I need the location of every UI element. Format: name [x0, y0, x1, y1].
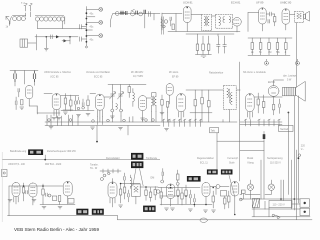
label box: [68, 199, 74, 204]
band switch box S1: [20, 39, 28, 47]
capacitor C9: [144, 10, 146, 14]
separator rule: [2, 159, 160, 161]
wire: [248, 13, 295, 32]
trimmer C6: [131, 9, 135, 16]
wire: [186, 90, 223, 113]
trimmer bank C24: [162, 119, 201, 126]
node A: [46, 36, 48, 38]
switch S4: [272, 214, 280, 219]
capacitor C4: [120, 11, 125, 15]
resistor R7: [259, 38, 262, 55]
resistor R13: [70, 95, 72, 111]
tube V6: [52, 94, 61, 118]
chassis line: [8, 216, 241, 220]
resistor R14: [128, 85, 131, 98]
tube V2: [233, 18, 242, 33]
antenna A1: [6, 17, 10, 29]
capacitor C12: [217, 36, 221, 53]
trimmer C30: [156, 190, 160, 194]
ground: [77, 114, 91, 117]
trimmer C46: [77, 107, 84, 110]
resistor R30: [154, 187, 156, 200]
tube V13: [12, 183, 20, 205]
svg-text:Netzteil: Netzteil: [280, 128, 288, 131]
badge B7: [92, 209, 104, 215]
capacitor C23: [279, 99, 281, 113]
resistor R9: [276, 38, 279, 55]
diode D2: [63, 39, 66, 42]
ground: [20, 107, 24, 109]
trimmer C1: [24, 4, 32, 12]
badge B1: [28, 149, 43, 155]
output transformer T6: [282, 87, 295, 95]
capacitor C19: [75, 96, 77, 110]
resistor R15: [161, 95, 163, 111]
lamp LP1: [247, 180, 253, 199]
resistor R33: [181, 188, 183, 205]
rectifier GR1: [252, 199, 259, 208]
capacitor C17: [33, 71, 35, 83]
wire: [37, 21, 86, 48]
ground: [141, 118, 145, 120]
trimmer C36: [103, 172, 110, 177]
svg-text:VEB Stern Radio Berlin - Alec: VEB Stern Radio Berlin - Alec - Jahr 195…: [14, 227, 99, 232]
wire: [15, 82, 37, 114]
trimmer C40: [161, 180, 164, 183]
tube V19: [231, 182, 239, 215]
ratio transformer T5: [224, 86, 237, 110]
svg-text:DM: DM: [151, 177, 155, 180]
badge B8: [143, 206, 156, 212]
coil L3: [149, 12, 151, 17]
capacitor C29: [128, 190, 130, 202]
lamp LP2: [268, 180, 274, 195]
IF transformer T2: [216, 14, 233, 28]
svg-text:TA - W: TA - W: [90, 167, 98, 170]
diode D1: [56, 35, 59, 38]
svg-text:Vorstufe und Oszillator: Vorstufe und Oszillator: [86, 71, 110, 74]
junction dot: [298, 157, 300, 159]
terminal: [85, 46, 87, 48]
junction dot: [288, 112, 290, 114]
svg-text:Bandbreite eng: Bandbreite eng: [10, 150, 27, 153]
svg-text:ECH 81: ECH 81: [231, 1, 241, 5]
wire: [191, 15, 216, 17]
svg-text:Ratiodetektor: Ratiodetektor: [209, 71, 223, 74]
coil L5: [116, 104, 118, 110]
IF transformer T3: [295, 12, 304, 23]
ground: [8, 200, 36, 202]
pilot lamp LP3: [99, 7, 103, 11]
svg-text:Takt: Takt: [211, 130, 216, 133]
badge B6: [76, 209, 88, 215]
magic eye V12: [268, 86, 279, 104]
wire bus: [37, 106, 237, 142]
ground: [119, 205, 123, 207]
ground: [42, 207, 46, 209]
svg-text:UKW 87,5...100: UKW 87,5...100: [8, 163, 26, 166]
capacitor C26: [26, 191, 28, 194]
resistor R19: [208, 90, 211, 113]
resistor R26: [119, 184, 121, 203]
resistor R2: [196, 34, 199, 54]
trimmer C37: [100, 178, 103, 181]
tube V16: [108, 179, 117, 208]
capacitor C42: [80, 25, 87, 30]
wire: [158, 188, 212, 205]
svg-text:Tonblende: Tonblende: [146, 157, 158, 160]
resistor R3: [202, 36, 205, 54]
wire: [90, 94, 152, 99]
jack J2: [296, 59, 300, 65]
trimmer C8: [139, 12, 143, 16]
capacitor C2: [51, 35, 53, 39]
ground: [165, 208, 169, 210]
ground: [212, 210, 216, 212]
badge B2a: [131, 153, 143, 160]
coil L6: [133, 89, 135, 107]
capacitor C45: [82, 103, 84, 107]
node B: [69, 36, 71, 38]
capacitor C18: [18, 89, 20, 97]
badge B5: [187, 176, 201, 182]
capacitor C14: [266, 12, 275, 16]
coil L2: [31, 12, 65, 21]
resistor R12: [64, 94, 66, 111]
wire bus: [240, 122, 282, 125]
tube V18: [202, 183, 210, 205]
coil L4: [161, 13, 163, 30]
variable capacitor C21: [118, 88, 124, 102]
svg-text:ZF 460 kHz: ZF 460 kHz: [131, 71, 144, 74]
svg-text:UF 89: UF 89: [256, 1, 264, 5]
wire: [44, 94, 79, 111]
resistor R1: [172, 24, 174, 30]
capacitor C27: [46, 193, 48, 196]
resistor R29: [149, 188, 151, 202]
badge B4: [221, 169, 233, 174]
svg-text:110 - 220 V: 110 - 220 V: [273, 204, 286, 207]
svg-text:ECC 85: ECC 85: [94, 76, 103, 79]
switch box S3: [242, 190, 246, 194]
shield wall: [162, 17, 164, 35]
ground: [165, 129, 169, 131]
capacitor C38: [124, 173, 126, 184]
svg-text:ECL 11: ECL 11: [200, 162, 208, 165]
svg-text:Demodulator: Demodulator: [106, 157, 120, 160]
dipole antenna A2: [10, 71, 38, 85]
svg-text:MW 510...1620: MW 510...1620: [45, 163, 62, 166]
ground: [204, 210, 208, 212]
capacitor C7: [136, 11, 138, 15]
resistor R27: [123, 184, 125, 199]
resistor R39: [87, 100, 89, 111]
ground: [195, 55, 211, 58]
tube V11: [246, 94, 255, 119]
svg-text:Stufe: Stufe: [229, 162, 235, 165]
fuse F1: [263, 134, 266, 139]
resistor R24: [42, 184, 44, 203]
resistor R10: [285, 38, 288, 55]
resistor R38: [177, 170, 180, 182]
pilot lamp LP5: [99, 34, 103, 38]
wire: [217, 23, 297, 217]
wire: [145, 14, 154, 29]
resistor R35: [212, 191, 214, 208]
tube V3: [259, 8, 267, 31]
tube V17: [166, 184, 175, 206]
trimmer C33: [216, 185, 220, 189]
wire: [240, 160, 312, 220]
resistor R32: [177, 185, 179, 204]
capacitor C16: [14, 71, 16, 83]
capacitor C5: [125, 11, 127, 15]
tube V15: [63, 182, 72, 205]
capacitor C31: [190, 190, 192, 204]
trimmer bank C25: [244, 119, 280, 126]
resistor R11: [21, 100, 23, 105]
svg-text:UCH 81: UCH 81: [183, 1, 193, 5]
svg-text:Regelverstärker: Regelverstärker: [197, 157, 214, 160]
capacitor C47: [15, 97, 17, 110]
label box: [210, 128, 219, 133]
tube V14: [29, 183, 37, 205]
svg-text:UABC 80: UABC 80: [280, 1, 292, 5]
tube V10: [177, 94, 186, 119]
svg-text:T. A.: T. A.: [21, 2, 26, 5]
tube V9: [166, 84, 173, 104]
ground: [110, 116, 114, 118]
resistor R22: [272, 105, 274, 115]
resistor R8: [268, 38, 271, 55]
resistor R5: [274, 14, 276, 26]
resistor R25: [58, 196, 60, 202]
wire: [186, 34, 234, 36]
mains transformer TR1 windings: [300, 199, 310, 216]
trimmer C28: [48, 194, 51, 197]
svg-text:EF 89: EF 89: [172, 75, 179, 78]
wire: [44, 155, 46, 161]
junction dots bottom: [23, 183, 295, 216]
ground: [49, 127, 123, 130]
tube V1 UCH81: [183, 7, 191, 32]
trimmer C10: [162, 20, 167, 28]
pointer line: [229, 175, 235, 196]
earphone P1: [304, 11, 310, 21]
wire: [28, 35, 78, 51]
IF coil T4: [152, 93, 156, 112]
ground: [58, 207, 62, 209]
svg-text:Klang: Klang: [248, 162, 255, 165]
resistor R21: [262, 95, 265, 114]
ground: [188, 209, 192, 211]
coil L7: [130, 175, 132, 189]
wire: [110, 14, 160, 28]
capacitor C32: [194, 194, 196, 207]
wire bus: [86, 7, 98, 47]
resistor R16: [166, 102, 168, 113]
label box Netzteil: [279, 125, 294, 131]
svg-text:ZF-Verst.: ZF-Verst.: [169, 71, 179, 74]
potentiometer P2: [52, 196, 56, 200]
wire: [210, 187, 229, 195]
wire: [240, 180, 300, 201]
svg-text:UCC 85: UCC 85: [50, 76, 59, 79]
trimmer C41: [176, 182, 179, 185]
wire: [254, 80, 298, 210]
capacitor C44: [78, 101, 80, 105]
badge B2b: [131, 161, 143, 168]
wire: [120, 184, 158, 188]
pointer line: [133, 168, 143, 186]
resistor R23: [22, 183, 24, 201]
capacitor C39: [162, 169, 164, 180]
resistor R17: [194, 90, 197, 113]
resistor R31: [160, 188, 162, 206]
connector bump: [200, 218, 207, 222]
variable capacitor C20: [110, 88, 116, 102]
svg-text:dyn. Lautspr.: dyn. Lautspr.: [283, 74, 297, 77]
IF can T7: [132, 184, 141, 204]
loudspeaker LS1: [296, 81, 306, 101]
ground: [44, 49, 48, 51]
ground: [171, 208, 175, 210]
svg-text:UKW-Vorstufe u. Mischst.: UKW-Vorstufe u. Mischst.: [44, 71, 72, 74]
svg-text:Musik: Musik: [247, 157, 254, 160]
svg-text:10,7 MHz: 10,7 MHz: [133, 75, 144, 78]
wire: [100, 169, 121, 173]
ground: [52, 118, 61, 120]
svg-text:5 W: 5 W: [287, 79, 292, 82]
band component circles: [48, 119, 155, 123]
bus pin stubs: [47, 110, 230, 126]
wire: [9, 186, 75, 216]
trimmer C3: [115, 12, 119, 16]
tube V8: [139, 96, 147, 118]
wire: [108, 85, 146, 117]
capacitor C35: [298, 154, 301, 157]
capacitor C13: [223, 36, 227, 53]
svg-text:Fernempf.: Fernempf.: [228, 157, 239, 160]
capacitor C43: [80, 37, 87, 42]
svg-text:Netzspannung: Netzspannung: [267, 157, 283, 160]
svg-text:220: 220: [301, 145, 306, 148]
terminal block TB1: [2, 170, 8, 177]
jack J1: [265, 59, 269, 65]
resistor R36: [224, 196, 226, 209]
wire: [61, 96, 94, 111]
ground: [63, 112, 67, 114]
ground: [160, 113, 164, 115]
tube V4: [282, 9, 290, 30]
wire: [236, 62, 240, 120]
tube V5: [26, 85, 33, 106]
svg-text:1M: 1M: [268, 51, 271, 54]
resistor R18: [201, 90, 204, 113]
node dots: [86, 12, 88, 42]
svg-text:Zwischenfrequenz 460 kHz: Zwischenfrequenz 460 kHz: [47, 150, 77, 153]
capacitor C15: [268, 20, 270, 24]
resistor ladder R6: [251, 38, 254, 55]
junction dot: [96, 141, 98, 143]
resistor R34: [185, 185, 187, 204]
wire: [10, 17, 65, 25]
mains transformer TR1 primary: [269, 201, 292, 208]
svg-text:EM 80: EM 80: [268, 81, 276, 84]
svg-text:110-220 V: 110-220 V: [270, 162, 281, 165]
IF transformer T1: [202, 14, 212, 30]
trimmer C22: [111, 109, 123, 112]
resistor R4: [207, 36, 210, 54]
badge B3: [207, 169, 218, 174]
resistor R37: [228, 191, 230, 208]
potentiometer P3: [221, 191, 227, 197]
wire bus: [248, 38, 292, 55]
trimmer C34: [239, 198, 242, 201]
scan artifact line: [1, 152, 3, 222]
wire: [162, 14, 240, 32]
capacitor C11: [170, 17, 172, 26]
tube V7: [96, 94, 105, 118]
pilot lamp LP4: [99, 21, 103, 25]
resistor R28: [145, 187, 147, 201]
svg-text:NF-Verst. u. Endstufe: NF-Verst. u. Endstufe: [243, 71, 267, 74]
resistor R20: [257, 93, 260, 113]
